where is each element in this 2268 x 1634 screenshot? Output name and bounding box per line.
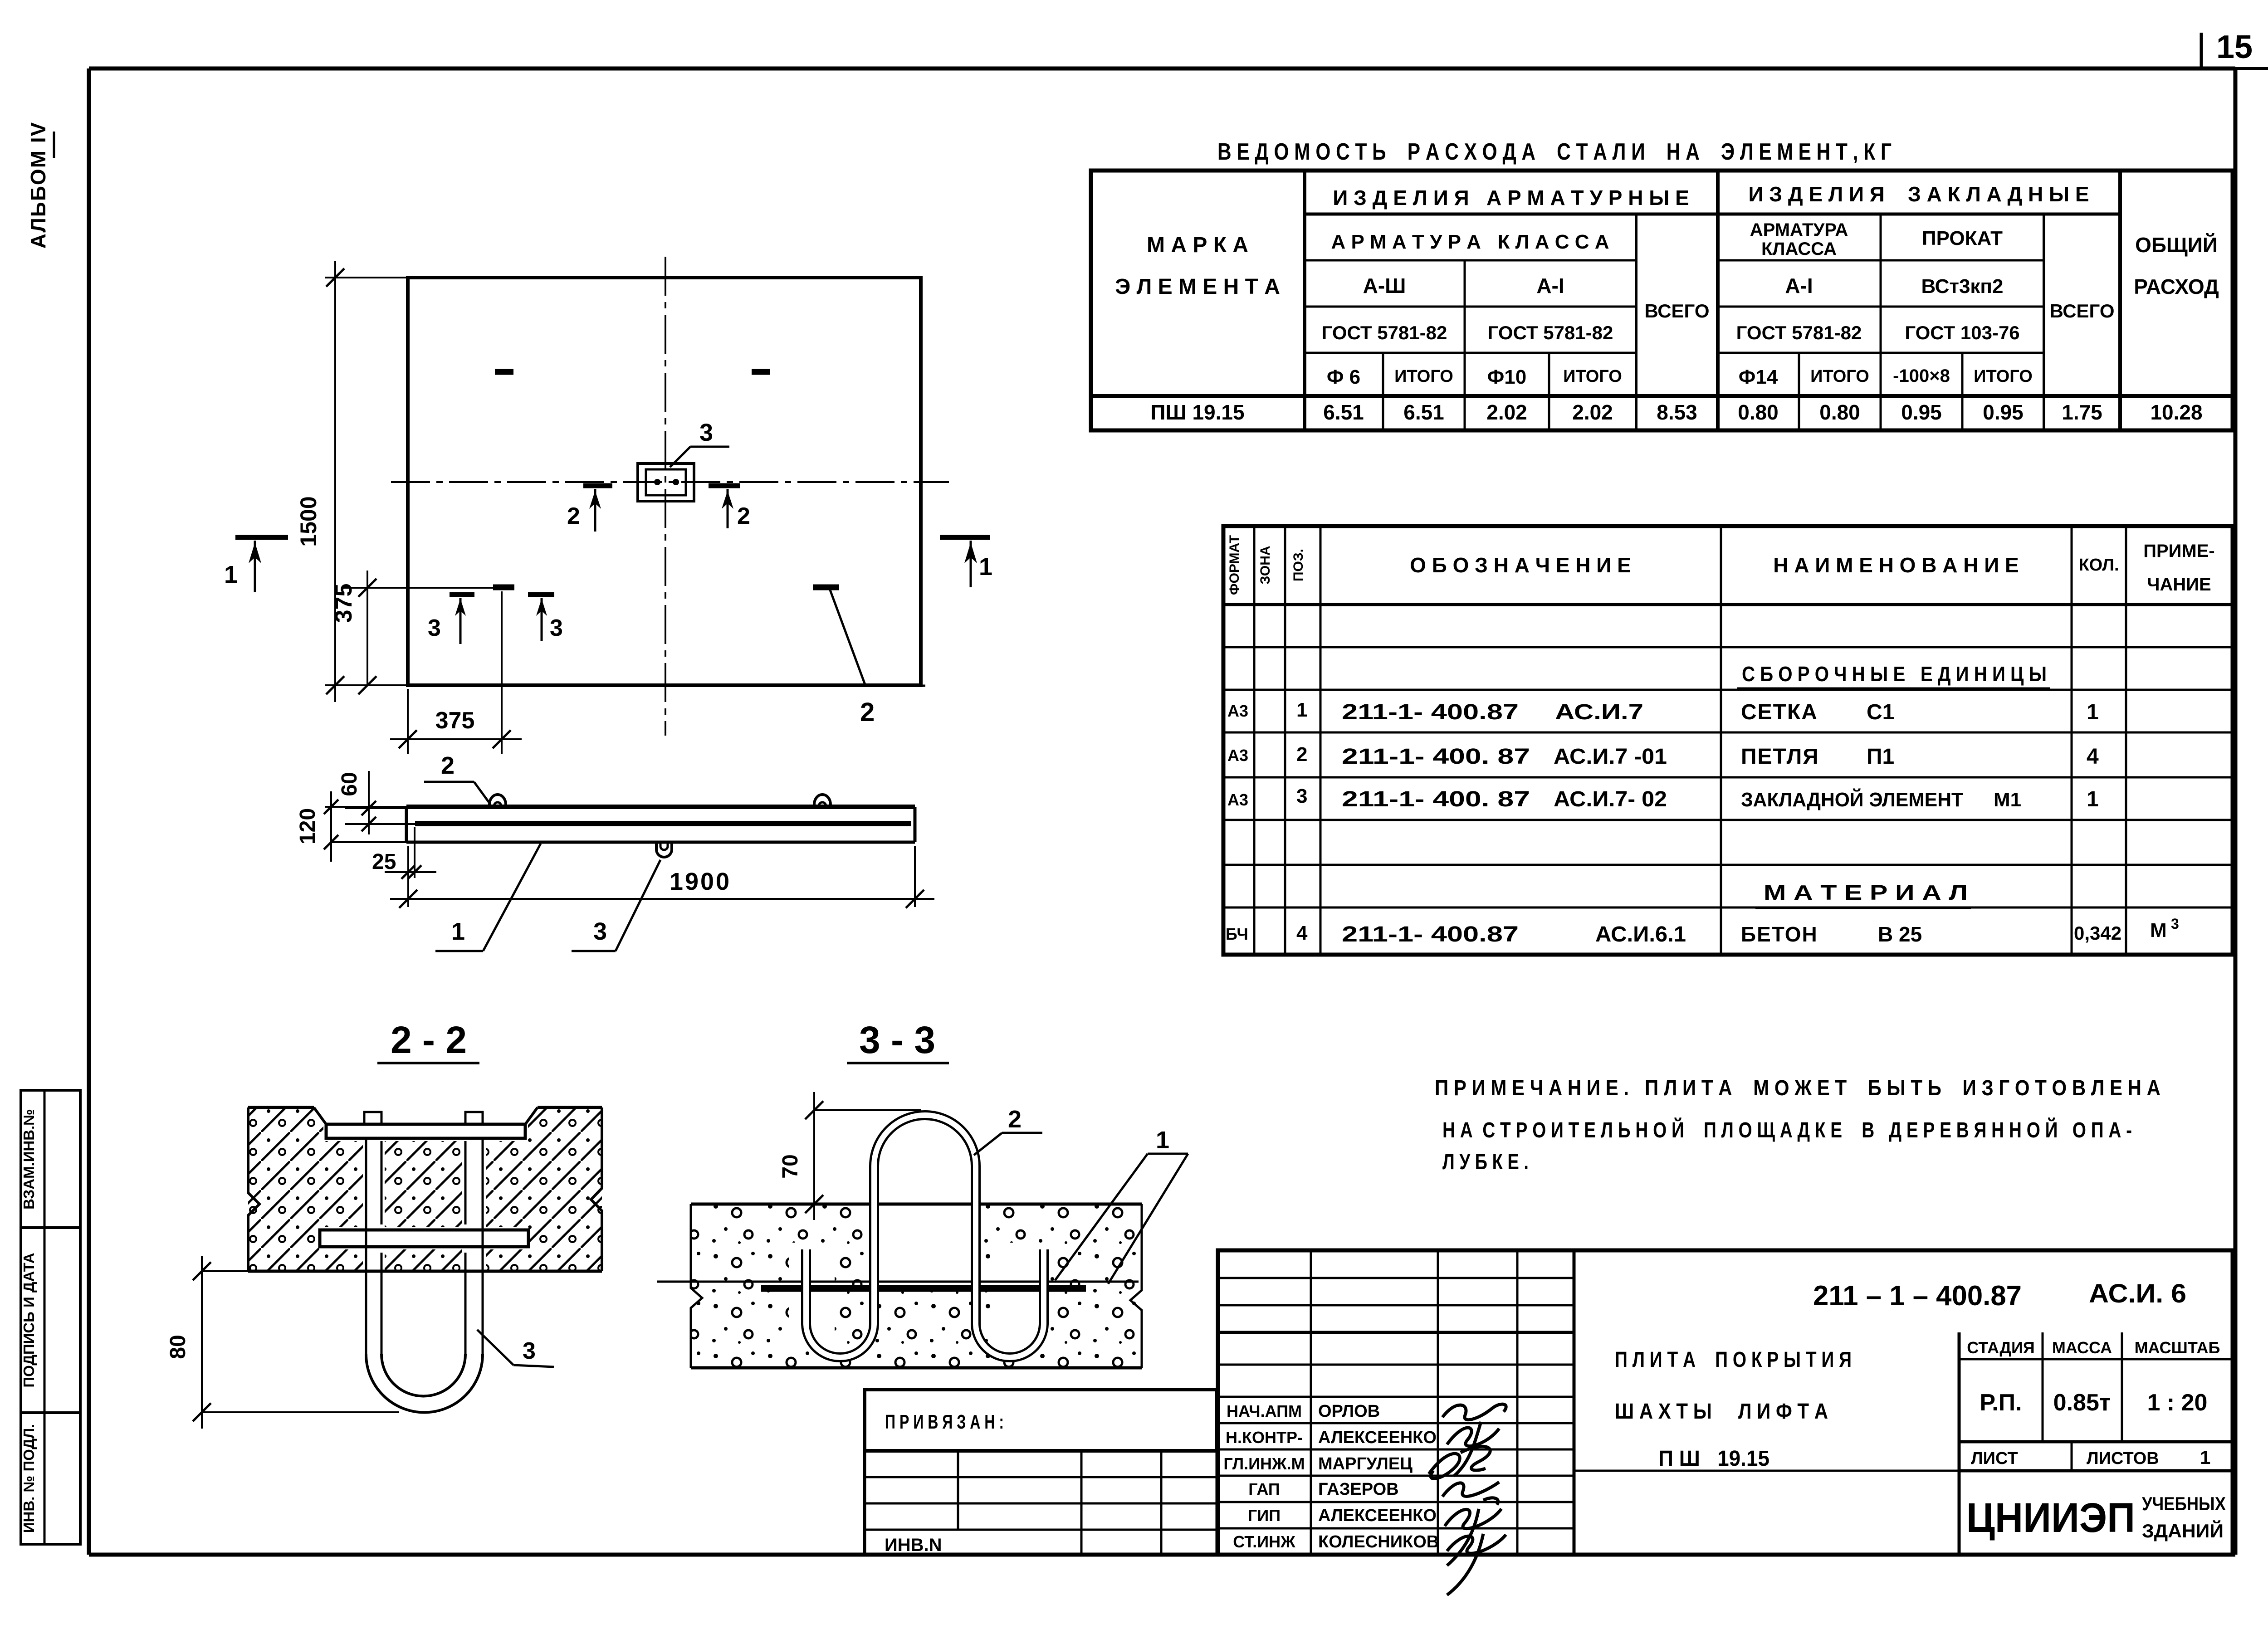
svg-text:ЧАНИЕ: ЧАНИЕ [2147, 575, 2211, 595]
svg-text:СЕТКА: СЕТКА [1741, 700, 1818, 724]
elevation bottom loop [656, 842, 672, 857]
page number 15 with tick [2201, 29, 2253, 67]
title block document number [1813, 1279, 2186, 1312]
svg-text:АЛЕКСЕЕНКО: АЛЕКСЕЕНКО [1318, 1428, 1437, 1447]
elevation top lifting loops [489, 795, 831, 808]
svg-text:ИТОГО: ИТОГО [1394, 367, 1453, 386]
svg-text:Ф14: Ф14 [1739, 366, 1778, 388]
svg-text:Ф 6: Ф 6 [1327, 366, 1360, 388]
svg-text:ОБЩИЙ: ОБЩИЙ [2135, 233, 2218, 257]
svg-text:НАЧ.АПМ: НАЧ.АПМ [1227, 1402, 1302, 1420]
svg-text:2: 2 [1296, 743, 1307, 766]
line under name area [1574, 1470, 1959, 1472]
leader label 3 elevation [572, 860, 660, 951]
title block sheet row [1959, 1442, 2233, 1471]
section mark 2-2 left [567, 486, 612, 532]
left margin stamp boxes [20, 1090, 80, 1544]
svg-text:Н.КОНТР-: Н.КОНТР- [1226, 1428, 1303, 1447]
parts table rows [1226, 662, 2179, 946]
svg-text:В Е Д О М О С Т Ь Р А С Х О: В Е Д О М О С Т Ь Р А С Х О Д А С Т А Л … [1217, 139, 1892, 165]
svg-text:211-1- 400. 87: 211-1- 400. 87 [1342, 787, 1530, 811]
leader label 2 lower right [830, 590, 925, 727]
svg-text:1: 1 [2087, 700, 2099, 724]
svg-text:0.80: 0.80 [1738, 400, 1779, 424]
dimension 1900 [390, 846, 934, 908]
svg-text:1: 1 [1156, 1127, 1169, 1154]
svg-text:УЧЕБНЫХ: УЧЕБНЫХ [2142, 1493, 2226, 1514]
svg-text:О Б О З Н А Ч Е Н И Е: О Б О З Н А Ч Е Н И Е [1410, 553, 1631, 577]
leader label 1 section 3-3 [1055, 1127, 1188, 1284]
svg-text:И З Д Е Л И Я З А К Л А Д Н: И З Д Е Л И Я З А К Л А Д Н Ы Е [1748, 182, 2089, 206]
svg-text:2.02: 2.02 [1572, 400, 1613, 424]
svg-text:375: 375 [435, 707, 475, 734]
svg-text:М А Т Е Р И А Л: М А Т Е Р И А Л [1764, 881, 1968, 904]
svg-text:211-1- 400.87: 211-1- 400.87 [1342, 700, 1519, 724]
svg-text:Р.П.: Р.П. [1980, 1390, 2022, 1416]
section mark 3-3 left [428, 595, 474, 644]
section mark 1 right [940, 537, 992, 587]
svg-text:120: 120 [296, 808, 320, 844]
dimension 375 vertical [331, 571, 495, 694]
svg-text:4: 4 [2087, 745, 2099, 769]
svg-text:ГАЗЕРОВ: ГАЗЕРОВ [1318, 1480, 1399, 1499]
svg-text:1: 1 [1296, 699, 1307, 721]
svg-text:ИТОГО: ИТОГО [1810, 367, 1869, 386]
svg-text:Э Л Е М Е Н Т А: Э Л Е М Е Н Т А [1115, 275, 1280, 299]
svg-text:ГАП: ГАП [1248, 1480, 1280, 1498]
organization logo [1966, 1493, 2226, 1541]
svg-text:А3: А3 [1227, 790, 1248, 809]
svg-text:ГОСТ 5781-82: ГОСТ 5781-82 [1322, 322, 1447, 343]
elevation slab body [406, 807, 915, 842]
attachment grid [865, 1451, 1217, 1555]
steel table header texts [1115, 182, 2219, 388]
svg-text:ГЛ.ИНЖ.М: ГЛ.ИНЖ.М [1223, 1454, 1305, 1473]
svg-text:211-1- 400.87: 211-1- 400.87 [1342, 922, 1519, 946]
leader label 1 elevation [435, 844, 541, 951]
svg-text:МАРГУЛЕЦ: МАРГУЛЕЦ [1318, 1454, 1413, 1473]
svg-text:ПОДПИСЬ И ДАТА: ПОДПИСЬ И ДАТА [20, 1253, 37, 1387]
svg-text:0.80: 0.80 [1819, 400, 1860, 424]
svg-text:М1: М1 [1994, 789, 2021, 811]
svg-text:3: 3 [699, 419, 713, 446]
svg-text:ВСт3кп2: ВСт3кп2 [1921, 275, 2004, 298]
svg-text:ПРОКАТ: ПРОКАТ [1922, 227, 2003, 249]
svg-text:КОЛ.: КОЛ. [2078, 556, 2119, 575]
title block stage mass scale [1959, 1332, 2233, 1555]
svg-text:В 25: В 25 [1878, 922, 1922, 946]
svg-text:2.02: 2.02 [1486, 400, 1527, 424]
svg-text:70: 70 [778, 1154, 802, 1178]
dimension 1500 vertical [296, 261, 410, 702]
svg-text:АЛЬБОМ IV: АЛЬБОМ IV [26, 122, 50, 249]
svg-text:АС.И.6.1: АС.И.6.1 [1595, 922, 1686, 946]
svg-text:1: 1 [224, 561, 238, 588]
svg-text:АРМАТУРА: АРМАТУРА [1750, 220, 1848, 240]
svg-text:РАСХОД: РАСХОД [2134, 275, 2219, 298]
plan center axes (dash-dot) [391, 257, 949, 736]
dimension 25 [372, 827, 436, 907]
svg-text:10.28: 10.28 [2150, 400, 2202, 424]
svg-text:211-1- 400. 87: 211-1- 400. 87 [1342, 745, 1530, 769]
plan view slab outline [408, 278, 921, 685]
svg-text:Ф10: Ф10 [1487, 366, 1527, 388]
svg-text:ЛИСТ: ЛИСТ [1971, 1449, 2018, 1468]
mesh C1 thick line in elevation [415, 821, 911, 826]
svg-text:60: 60 [337, 772, 362, 796]
signature squiggles [1429, 1404, 1506, 1595]
svg-text:П Р И М Е Ч А Н И Е . П Л И: П Р И М Е Ч А Н И Е . П Л И Т А М О Ж Е … [1435, 1076, 2160, 1100]
svg-text:М: М [2150, 919, 2167, 941]
svg-text:-100×8: -100×8 [1893, 366, 1950, 386]
svg-text:С1: С1 [1867, 700, 1894, 724]
svg-text:25: 25 [372, 850, 396, 874]
svg-text:ГОСТ 103-76: ГОСТ 103-76 [1905, 322, 2019, 343]
title block signature table grid [1218, 1250, 2233, 1555]
svg-text:ЗДАНИЙ: ЗДАНИЙ [2142, 1520, 2224, 1541]
dimension 60 [337, 771, 415, 834]
svg-text:2: 2 [441, 752, 455, 779]
svg-text:А3: А3 [1227, 746, 1248, 765]
section title 3-3 [847, 1019, 949, 1063]
section 3-3 concrete band [691, 1204, 1142, 1368]
svg-text:БЧ: БЧ [1226, 925, 1248, 943]
mesh C1 in section 3-3 [657, 1282, 1139, 1288]
svg-text:6.51: 6.51 [1403, 400, 1444, 424]
svg-text:А-I: А-I [1785, 274, 1813, 298]
leader label 2 section 3-3 [974, 1106, 1042, 1155]
svg-text:ПОЗ.: ПОЗ. [1291, 549, 1306, 581]
svg-text:ВСЕГО: ВСЕГО [1644, 300, 1709, 322]
dimension 375 horizontal below plan [390, 591, 522, 754]
svg-text:3 - 3: 3 - 3 [859, 1019, 935, 1061]
svg-text:С Б О Р О Ч Н Ы Е Е Д И Н И: С Б О Р О Ч Н Ы Е Е Д И Н И Ц Ы [1742, 662, 2047, 686]
svg-text:2: 2 [1008, 1106, 1022, 1133]
section mark 2-2 right [709, 486, 750, 529]
svg-text:1900: 1900 [670, 868, 731, 895]
svg-text:3: 3 [1296, 785, 1307, 807]
svg-text:АС.И.7: АС.И.7 [1555, 700, 1643, 724]
section 2-2 concrete outline [248, 1107, 602, 1271]
svg-text:2 - 2: 2 - 2 [391, 1019, 467, 1061]
svg-text:ФОРМАТ: ФОРМАТ [1227, 535, 1242, 595]
svg-text:А-Ш: А-Ш [1363, 274, 1406, 298]
privyazan box [865, 1390, 1217, 1451]
svg-text:Н А И М Е Н О В А Н И Е: Н А И М Е Н О В А Н И Е [1773, 553, 2019, 577]
dimension 70 [778, 1092, 921, 1220]
section 2-2 concrete hatch [248, 1107, 602, 1274]
svg-text:3: 3 [428, 615, 441, 641]
svg-text:ПЕТЛЯ: ПЕТЛЯ [1741, 745, 1819, 769]
note text [1435, 1076, 2160, 1174]
svg-text:3: 3 [2171, 916, 2179, 932]
embedded plate M1 top plate [326, 1112, 525, 1138]
U-anchor of embedded element [366, 1138, 483, 1412]
svg-text:АС.И.7 -01: АС.И.7 -01 [1554, 745, 1667, 769]
vertical album label [26, 122, 54, 249]
svg-text:6.51: 6.51 [1323, 400, 1364, 424]
svg-text:8.53: 8.53 [1657, 400, 1697, 424]
svg-text:2: 2 [567, 503, 580, 529]
svg-text:1.75: 1.75 [2062, 400, 2102, 424]
svg-text:БЕТОН: БЕТОН [1741, 922, 1818, 946]
svg-text:М А Р К А: М А Р К А [1147, 233, 1248, 257]
svg-text:И З Д Е Л И Я А Р М А Т У Р: И З Д Е Л И Я А Р М А Т У Р Н Ы Е [1333, 186, 1689, 210]
svg-text:АС.И.7- 02: АС.И.7- 02 [1554, 787, 1667, 811]
lifting loop marks in plan [493, 372, 839, 587]
svg-text:КЛАССА: КЛАССА [1761, 239, 1837, 259]
svg-text:1500: 1500 [296, 496, 321, 546]
svg-text:ИТОГО: ИТОГО [1563, 367, 1622, 386]
svg-text:МАССА: МАССА [2052, 1338, 2112, 1357]
svg-text:П1: П1 [1867, 745, 1894, 769]
section 3-3 band outline [691, 1204, 1142, 1368]
svg-text:3: 3 [593, 918, 607, 945]
svg-text:15: 15 [2216, 29, 2253, 65]
dimension 80 [166, 1256, 399, 1429]
svg-text:0,342: 0,342 [2074, 922, 2121, 944]
section mark 1 left [224, 537, 288, 592]
svg-text:КОЛЕСНИКОВ: КОЛЕСНИКОВ [1318, 1532, 1439, 1551]
title block drawing name [1615, 1348, 1852, 1471]
svg-text:ВСЕГО: ВСЕГО [2049, 300, 2114, 322]
signature table names [1223, 1402, 1439, 1551]
svg-text:Н А С Т Р О И Т Е Л Ь Н О Й: Н А С Т Р О И Т Е Л Ь Н О Й П Л О Щ А Д … [1442, 1117, 2132, 1142]
svg-text:1: 1 [2200, 1447, 2210, 1468]
svg-text:МАСШТАБ: МАСШТАБ [2135, 1338, 2220, 1357]
svg-text:1: 1 [451, 918, 465, 945]
svg-text:ЛИСТОВ: ЛИСТОВ [2087, 1449, 2159, 1468]
svg-text:А3: А3 [1227, 702, 1248, 720]
dimension 120 [296, 791, 408, 862]
svg-text:0.85т: 0.85т [2053, 1390, 2111, 1416]
parts table header texts [1227, 535, 2215, 595]
svg-text:П Ш 19.15: П Ш 19.15 [1658, 1447, 1769, 1471]
svg-text:375: 375 [331, 584, 357, 623]
svg-text:А-I: А-I [1536, 274, 1564, 298]
svg-text:0.95: 0.95 [1983, 400, 2024, 424]
svg-text:Л У Б К Е .: Л У Б К Е . [1442, 1150, 1529, 1174]
svg-text:ГОСТ 5781-82: ГОСТ 5781-82 [1488, 322, 1613, 343]
svg-text:ИНВ. № ПОДЛ.: ИНВ. № ПОДЛ. [20, 1424, 37, 1533]
embedded plate M1 in plan [638, 463, 694, 501]
svg-text:А Р М А Т У Р А К Л А С С А: А Р М А Т У Р А К Л А С С А [1331, 231, 1609, 253]
svg-text:2: 2 [737, 503, 750, 529]
svg-text:ЗАКЛАДНОЙ ЭЛЕМЕНТ: ЗАКЛАДНОЙ ЭЛЕМЕНТ [1741, 788, 1963, 811]
svg-text:ГОСТ 5781-82: ГОСТ 5781-82 [1736, 322, 1862, 343]
anchor washer plate [320, 1230, 528, 1247]
svg-text:1: 1 [2087, 787, 2099, 811]
svg-text:Ш А Х Т Ы Л И Ф Т А: Ш А Х Т Ы Л И Ф Т А [1615, 1400, 1828, 1424]
svg-text:ГИП: ГИП [1248, 1506, 1281, 1525]
svg-text:ИТОГО: ИТОГО [1974, 367, 2033, 386]
svg-text:2: 2 [860, 697, 875, 727]
leader label 3 for plate [670, 419, 729, 467]
svg-text:АЛЕКСЕЕНКО: АЛЕКСЕЕНКО [1318, 1506, 1437, 1525]
svg-text:1: 1 [979, 553, 992, 580]
svg-text:80: 80 [166, 1335, 190, 1359]
svg-text:ИНВ.N: ИНВ.N [885, 1535, 942, 1555]
leader label 2 to elevation loop [424, 752, 490, 804]
svg-text:ЗОНА: ЗОНА [1258, 546, 1273, 584]
parts list table grid [1223, 526, 2233, 955]
steel consumption table grid [1091, 171, 2233, 430]
svg-text:3: 3 [523, 1338, 536, 1364]
lifting loop P1 in section 3-3 [806, 1115, 1044, 1357]
svg-text:ОРЛОВ: ОРЛОВ [1318, 1402, 1380, 1421]
svg-text:ПРИМЕ-: ПРИМЕ- [2143, 541, 2215, 561]
svg-text:ПШ 19.15: ПШ 19.15 [1150, 400, 1244, 424]
svg-text:П Р И В Я З А Н :: П Р И В Я З А Н : [885, 1411, 1004, 1433]
svg-text:3: 3 [550, 615, 563, 641]
svg-text:П Л И Т А П О К Р Ы Т И Я: П Л И Т А П О К Р Ы Т И Я [1615, 1348, 1852, 1372]
section mark 3-3 right [528, 595, 563, 641]
svg-text:ВЗАМ.ИНВ.№: ВЗАМ.ИНВ.№ [20, 1109, 37, 1210]
section title 2-2 [377, 1019, 479, 1063]
svg-text:1 : 20: 1 : 20 [2147, 1390, 2208, 1416]
svg-text:0.95: 0.95 [1901, 400, 1942, 424]
leader label 3 section 2-2 [477, 1330, 554, 1367]
svg-text:АС.И. 6: АС.И. 6 [2089, 1279, 2186, 1308]
svg-text:4: 4 [1296, 922, 1308, 944]
svg-text:СТАДИЯ: СТАДИЯ [1967, 1338, 2035, 1357]
svg-text:ЦНИИЭП: ЦНИИЭП [1966, 1495, 2135, 1541]
steel table data row [1150, 400, 2202, 424]
svg-text:211 – 1 – 400.87: 211 – 1 – 400.87 [1813, 1280, 2022, 1312]
svg-text:СТ.ИНЖ: СТ.ИНЖ [1233, 1532, 1295, 1551]
